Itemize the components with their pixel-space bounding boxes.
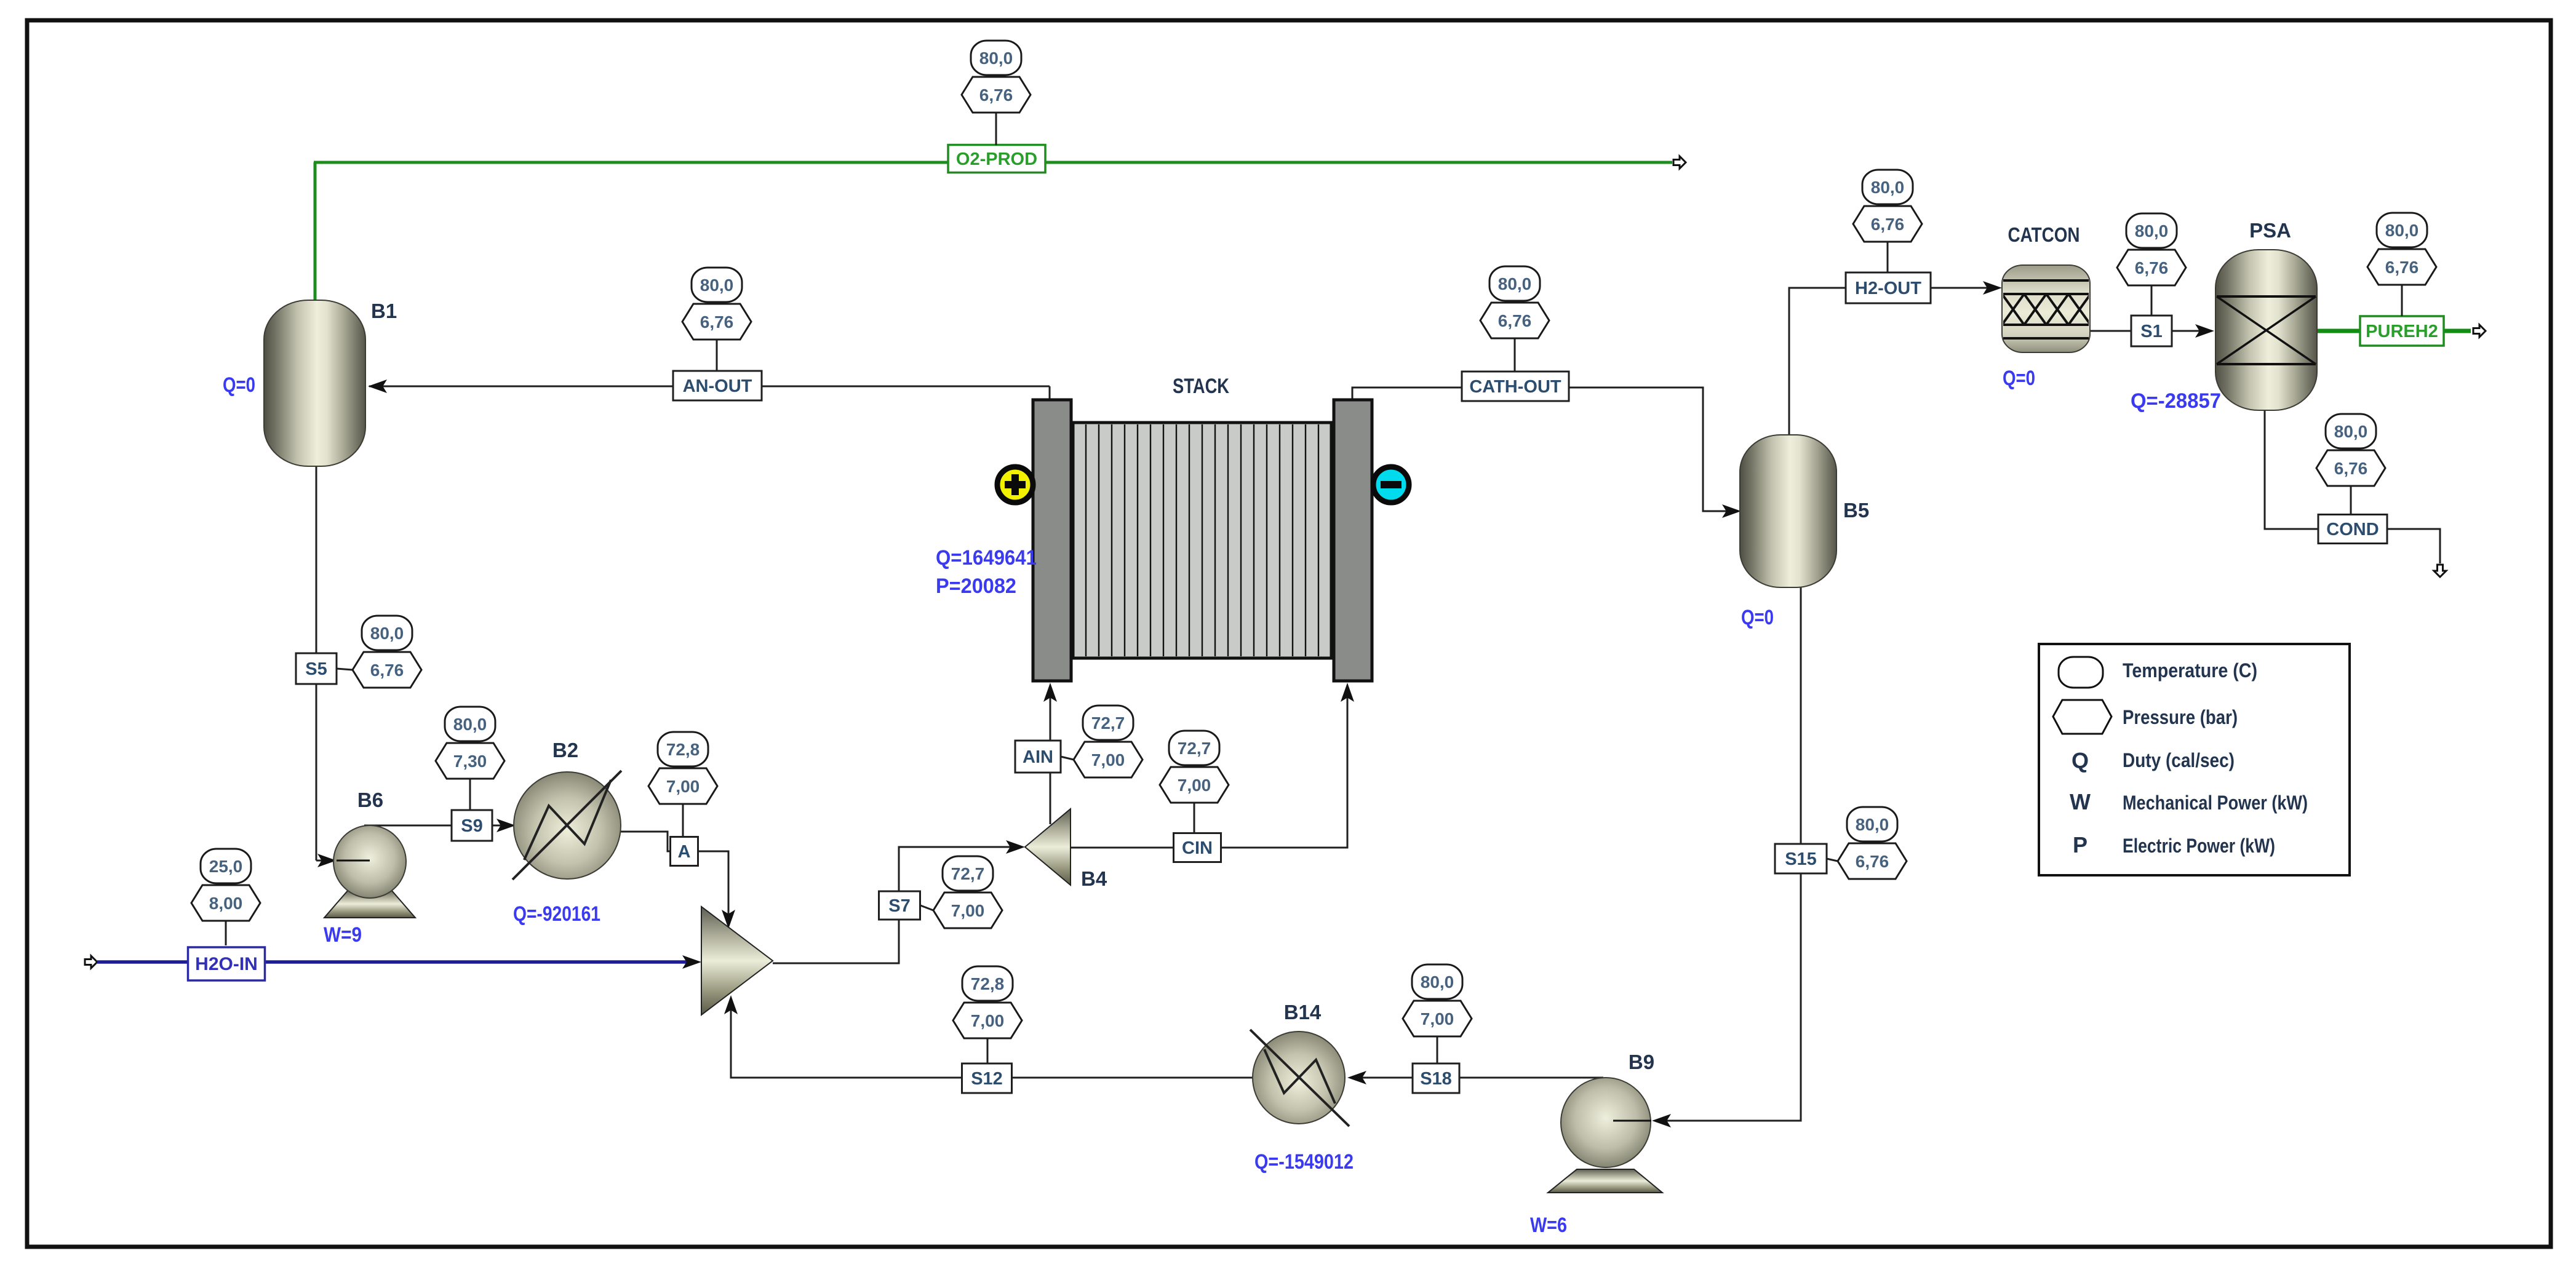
indicator connector S1 — [2151, 285, 2153, 316]
svg-text:80,0: 80,0 — [2385, 221, 2419, 240]
svg-text:AN-OUT: AN-OUT — [683, 376, 752, 396]
svg-text:7,00: 7,00 — [1421, 1009, 1454, 1028]
indicator temperature/pressure CIN — [1160, 731, 1229, 803]
indicator connector A — [682, 804, 684, 837]
stream label S12 — [962, 1063, 1012, 1093]
cathode minus terminal — [1373, 467, 1409, 503]
wire stream O2-PROD (green) — [314, 162, 1672, 308]
svg-text:6,76: 6,76 — [370, 661, 404, 680]
stream label S15 — [1775, 844, 1827, 873]
stream label PUREH2 — [2360, 316, 2444, 346]
svg-text:H2O-IN: H2O-IN — [195, 954, 258, 974]
wire stream A-out — [698, 851, 728, 920]
indicator temperature/pressure A — [648, 732, 717, 804]
value Q=0 of B5 — [1741, 606, 1774, 629]
indicator connector S15 — [1827, 859, 1838, 861]
label PSA — [2249, 219, 2291, 242]
svg-text:S9: S9 — [461, 816, 482, 836]
svg-text:AIN: AIN — [1023, 747, 1053, 767]
value W=6 of B9 — [1530, 1214, 1567, 1237]
indicator temperature/pressure O2-PROD — [962, 41, 1031, 113]
arrow into stack right bar — [1341, 683, 1354, 702]
svg-text:7,00: 7,00 — [971, 1011, 1005, 1030]
wire stream H2-OUT — [1789, 288, 1993, 437]
value Q=0 of CATCON — [2003, 367, 2035, 390]
value Q=-28857 of PSA — [2131, 389, 2221, 413]
arrow into B5 — [1722, 504, 1741, 518]
indicator temperature/pressure H2O-IN — [191, 849, 260, 921]
indicator temperature/pressure COND — [2316, 414, 2385, 486]
svg-text:7,00: 7,00 — [1178, 776, 1211, 795]
svg-text:S18: S18 — [1420, 1069, 1452, 1089]
svg-text:S7: S7 — [888, 896, 910, 916]
svg-text:Electric Power (kW): Electric Power (kW) — [2123, 835, 2275, 857]
indicator connector AN-OUT — [716, 340, 718, 371]
svg-text:Q=-28857: Q=-28857 — [2131, 389, 2221, 413]
wire stream PUREH2 (green) — [2315, 329, 2471, 333]
stack left electrode bar — [1033, 400, 1071, 681]
svg-text:B1: B1 — [371, 300, 397, 322]
svg-text:B14: B14 — [1284, 1001, 1322, 1024]
svg-text:72,7: 72,7 — [1178, 739, 1211, 758]
svg-text:PUREH2: PUREH2 — [2366, 322, 2438, 341]
indicator temperature/pressure S5 — [353, 616, 421, 688]
wire stream H2O-IN (blue) — [97, 960, 694, 964]
heater B2 — [512, 771, 621, 880]
stack cells — [1073, 423, 1331, 658]
label B14 — [1284, 1001, 1322, 1024]
svg-text:80,0: 80,0 — [1421, 972, 1454, 992]
svg-text:W=6: W=6 — [1530, 1214, 1567, 1237]
svg-text:80,0: 80,0 — [1871, 178, 1905, 197]
indicator connector PUREH2 — [2401, 285, 2403, 316]
stream label S7 — [879, 891, 920, 920]
wire stream S1 — [2090, 330, 2206, 332]
svg-text:S1: S1 — [2140, 322, 2162, 341]
stream O2-PROD end open arrow — [1673, 156, 1686, 169]
vessel B5 — [1740, 435, 1836, 587]
label CATCON — [2008, 223, 2080, 246]
svg-text:CATH-OUT: CATH-OUT — [1469, 377, 1561, 397]
stream PUREH2 end open arrow — [2473, 325, 2486, 337]
stream label O2-PROD — [948, 145, 1045, 173]
wire stream S7 — [773, 847, 1016, 963]
arrow into B9 — [1652, 1114, 1671, 1127]
svg-text:8,00: 8,00 — [209, 894, 243, 913]
indicator temperature/pressure AN-OUT — [682, 268, 751, 340]
svg-text:W=9: W=9 — [324, 923, 362, 947]
svg-text:Duty (cal/sec): Duty (cal/sec) — [2123, 749, 2235, 771]
legend box — [2039, 644, 2350, 875]
stream label H2O-IN — [188, 947, 265, 980]
indicator connector H2O-IN — [225, 921, 227, 945]
stream label CIN — [1174, 833, 1221, 862]
stream label S9 — [452, 810, 492, 841]
svg-text:H2-OUT: H2-OUT — [1855, 279, 1921, 298]
svg-text:6,76: 6,76 — [2135, 258, 2169, 277]
wire stream AIN — [1050, 690, 1051, 824]
svg-text:6,76: 6,76 — [2334, 459, 2368, 478]
svg-text:CIN: CIN — [1182, 838, 1213, 858]
arrow into B6 — [317, 854, 337, 867]
indicator temperature/pressure S9 — [436, 707, 504, 779]
value Q=-920161 of B2 — [513, 902, 600, 926]
stream label S1 — [2131, 316, 2172, 346]
svg-text:Temperature (C): Temperature (C) — [2123, 659, 2257, 682]
label B6 — [357, 789, 383, 811]
stream label AIN — [1015, 741, 1061, 773]
svg-text:S15: S15 — [1785, 849, 1817, 869]
indicator connector CIN — [1194, 803, 1195, 833]
svg-text:6,76: 6,76 — [1498, 311, 1532, 330]
wire stream S12 — [731, 1003, 1253, 1078]
svg-text:Q=0: Q=0 — [1741, 606, 1774, 629]
svg-text:PSA: PSA — [2249, 219, 2291, 242]
svg-text:Q=-920161: Q=-920161 — [513, 902, 600, 926]
svg-text:Q=-1549012: Q=-1549012 — [1254, 1150, 1354, 1174]
svg-text:O2-PROD: O2-PROD — [956, 149, 1037, 169]
svg-text:72,7: 72,7 — [1091, 714, 1125, 733]
label B1 — [371, 300, 397, 322]
stream label A — [671, 837, 698, 866]
svg-text:Q=0: Q=0 — [2003, 367, 2035, 390]
stream COND end open arrow — [2434, 565, 2446, 577]
indicator connector AIN — [1061, 757, 1074, 760]
svg-text:80,0: 80,0 — [700, 276, 734, 295]
arrow into PSA — [2195, 324, 2214, 338]
wire stream AN-OUT — [369, 386, 1050, 401]
wire stream A-in — [620, 832, 671, 851]
svg-text:Q=0: Q=0 — [223, 373, 255, 397]
label STACK — [1173, 375, 1229, 398]
svg-text:80,0: 80,0 — [1498, 274, 1532, 293]
wire stream COND — [2265, 409, 2440, 563]
stream label AN-OUT — [673, 371, 762, 400]
value Q,P of STACK — [936, 546, 1037, 598]
svg-text:6,76: 6,76 — [700, 312, 734, 332]
svg-text:Pressure (bar): Pressure (bar) — [2123, 706, 2238, 728]
value Q=-1549012 of B14 — [1254, 1150, 1354, 1174]
svg-text:7,00: 7,00 — [1091, 750, 1125, 769]
indicator connector O2-PROD — [995, 113, 997, 145]
reactor CATCON — [2002, 265, 2113, 352]
svg-text:7,00: 7,00 — [666, 777, 700, 796]
arrow into mixer left — [682, 955, 701, 969]
indicator connector COND — [2350, 486, 2352, 515]
svg-text:B5: B5 — [1843, 499, 1869, 522]
stack cell divider lines — [1086, 424, 1318, 656]
svg-text:80,0: 80,0 — [2334, 422, 2368, 441]
indicator connector S5 — [337, 669, 353, 670]
wire stream S9 — [364, 825, 506, 827]
arrow into B14 — [1347, 1071, 1366, 1084]
svg-text:B6: B6 — [357, 789, 383, 811]
stream label S18 — [1413, 1063, 1459, 1093]
pump B6 — [324, 825, 415, 918]
label B5 — [1843, 499, 1869, 522]
label B4 — [1081, 867, 1107, 890]
arrow into B2 — [496, 819, 516, 832]
indicator connector S9 — [469, 779, 471, 810]
indicator connector H2-OUT — [1887, 242, 1889, 272]
svg-text:80,0: 80,0 — [453, 715, 487, 734]
svg-text:80,0: 80,0 — [979, 49, 1013, 68]
wire stream S5 — [316, 465, 329, 861]
svg-text:Q: Q — [2072, 748, 2089, 773]
svg-text:P: P — [2073, 832, 2088, 857]
indicator connector CATH-OUT — [1514, 338, 1516, 372]
stream label COND — [2318, 515, 2387, 544]
arrow into B4 — [1006, 840, 1025, 854]
pump B9 — [1548, 1078, 1662, 1193]
svg-text:B4: B4 — [1081, 867, 1107, 890]
svg-text:CATCON: CATCON — [2008, 223, 2080, 246]
svg-text:25,0: 25,0 — [209, 857, 243, 876]
cooler B14 — [1250, 1030, 1349, 1126]
svg-text:72,8: 72,8 — [971, 974, 1005, 993]
svg-text:6,76: 6,76 — [1856, 852, 1889, 871]
svg-text:6,76: 6,76 — [1871, 215, 1905, 234]
wire stream S18 — [1357, 1077, 1603, 1079]
svg-text:S12: S12 — [971, 1069, 1003, 1089]
label B9 — [1629, 1051, 1654, 1073]
svg-text:72,8: 72,8 — [666, 740, 700, 759]
stream label S5 — [296, 653, 337, 684]
svg-text:80,0: 80,0 — [2135, 221, 2169, 240]
svg-text:72,7: 72,7 — [951, 864, 985, 883]
svg-text:Q=1649641: Q=1649641 — [936, 546, 1037, 570]
svg-text:W: W — [2070, 789, 2091, 814]
stack right electrode bar — [1334, 400, 1372, 681]
svg-text:Mechanical Power (kW): Mechanical Power (kW) — [2123, 792, 2308, 814]
arrow into B1 — [368, 380, 387, 393]
indicator connector S7 — [920, 905, 933, 910]
wire stream CIN — [1071, 690, 1347, 848]
wire stream CATH-OUT — [1352, 388, 1733, 511]
arrow into stack left bar — [1043, 683, 1057, 702]
wire B6 inlet stub — [337, 860, 370, 862]
indicator temperature/pressure H2-OUT — [1853, 170, 1922, 242]
value W=9 of B6 — [324, 923, 362, 947]
svg-text:6,76: 6,76 — [979, 85, 1013, 105]
indicator temperature/pressure CATH-OUT — [1480, 266, 1549, 338]
indicator connector S18 — [1437, 1036, 1438, 1063]
splitter B4 — [1025, 809, 1071, 885]
value Q=0 of B1 — [223, 373, 255, 397]
stream label CATH-OUT — [1462, 372, 1569, 401]
svg-text:80,0: 80,0 — [370, 624, 404, 643]
arrow into mixer bottom — [724, 995, 738, 1014]
svg-text:80,0: 80,0 — [1856, 815, 1889, 834]
indicator temperature/pressure S12 — [953, 966, 1022, 1038]
svg-text:B2: B2 — [552, 739, 578, 761]
arrow into CATCON — [1983, 281, 2002, 295]
indicator temperature/pressure AIN — [1074, 706, 1142, 777]
indicator temperature/pressure S18 — [1403, 964, 1472, 1036]
svg-text:S5: S5 — [305, 659, 327, 679]
indicator temperature/pressure PUREH2 — [2367, 213, 2436, 285]
arrow into mixer top — [722, 910, 735, 929]
indicator temperature/pressure S1 — [2117, 213, 2186, 285]
svg-text:STACK: STACK — [1173, 375, 1229, 398]
svg-text:A: A — [678, 842, 691, 862]
indicator temperature/pressure S15 — [1838, 807, 1907, 879]
indicator connector S12 — [987, 1038, 989, 1063]
stream label H2-OUT — [1846, 272, 1931, 303]
stream H2O-IN start open arrow — [85, 956, 97, 968]
svg-text:P=20082: P=20082 — [936, 574, 1016, 598]
svg-text:COND: COND — [2326, 520, 2379, 539]
svg-text:7,00: 7,00 — [951, 901, 985, 920]
mixer B3 — [701, 907, 773, 1015]
vessel B1 — [264, 300, 365, 466]
column PSA — [2215, 250, 2317, 410]
svg-text:7,30: 7,30 — [453, 752, 487, 771]
wire stream S15 — [1659, 586, 1801, 1121]
anode plus terminal — [997, 467, 1033, 503]
label B2 — [552, 739, 578, 761]
svg-text:6,76: 6,76 — [2385, 258, 2419, 277]
indicator temperature/pressure S7 — [933, 856, 1002, 928]
svg-text:B9: B9 — [1629, 1051, 1654, 1073]
